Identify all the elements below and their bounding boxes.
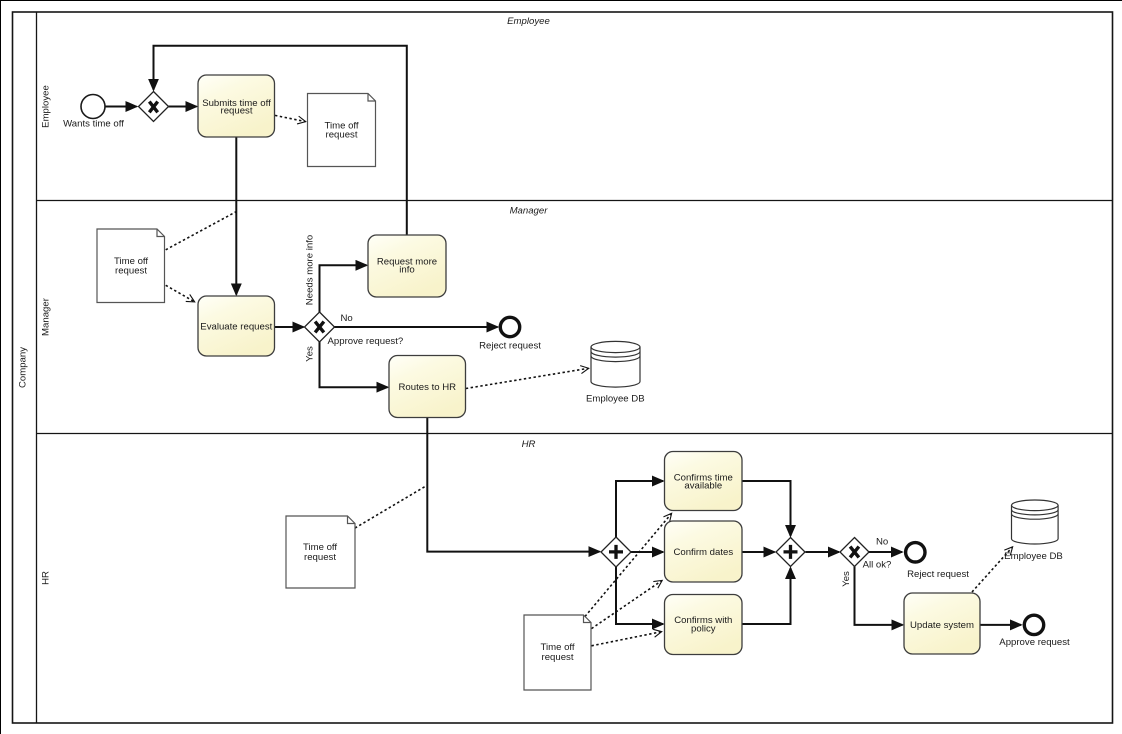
svg-text:Company: Company — [18, 347, 29, 388]
svg-text:Needs more info: Needs more info — [305, 235, 316, 305]
svg-text:Manager: Manager — [41, 297, 52, 336]
svg-text:available: available — [684, 481, 722, 492]
svg-text:request: request — [326, 129, 358, 140]
svg-text:info: info — [399, 265, 414, 276]
svg-text:Approve request: Approve request — [999, 637, 1070, 648]
svg-text:No: No — [876, 536, 888, 547]
svg-text:Yes: Yes — [305, 346, 316, 362]
svg-text:Reject request: Reject request — [907, 569, 969, 580]
svg-text:request: request — [221, 106, 253, 117]
svg-text:Yes: Yes — [841, 571, 852, 587]
svg-text:request: request — [304, 552, 336, 563]
svg-text:All ok?: All ok? — [863, 559, 892, 570]
svg-text:policy: policy — [691, 624, 716, 635]
svg-text:request: request — [115, 266, 147, 277]
svg-text:Employee: Employee — [507, 16, 550, 27]
svg-text:Employee DB: Employee DB — [1004, 551, 1063, 562]
svg-text:No: No — [341, 313, 353, 324]
svg-text:Evaluate request: Evaluate request — [200, 321, 272, 332]
svg-text:HR: HR — [522, 439, 536, 450]
svg-text:Employee DB: Employee DB — [586, 393, 645, 404]
svg-text:Routes to HR: Routes to HR — [399, 382, 457, 393]
svg-text:Reject request: Reject request — [479, 340, 541, 351]
svg-text:Update system: Update system — [910, 620, 974, 631]
svg-text:Approve request?: Approve request? — [328, 336, 404, 347]
svg-text:Wants time off: Wants time off — [63, 119, 124, 130]
svg-text:request: request — [542, 652, 574, 663]
svg-text:Manager: Manager — [510, 206, 549, 217]
svg-text:Confirm dates: Confirm dates — [673, 547, 733, 558]
svg-text:HR: HR — [41, 571, 52, 585]
svg-text:Employee: Employee — [41, 85, 52, 128]
